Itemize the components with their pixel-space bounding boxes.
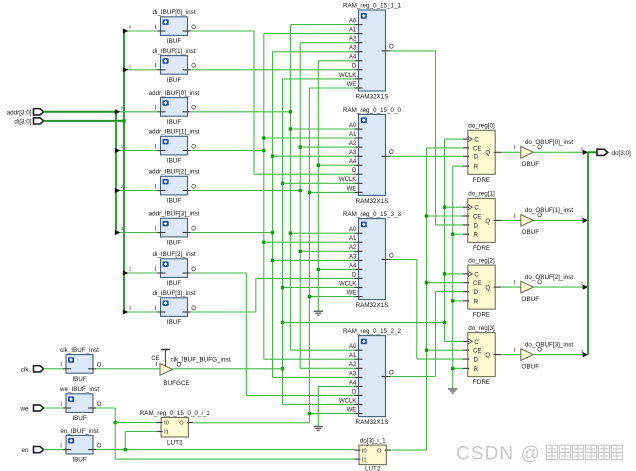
svg-text:A1: A1	[349, 28, 357, 34]
junction WE	[308, 191, 311, 194]
junction WCLK clk feed	[281, 367, 284, 370]
OBUF do_OBUF[0]_inst	[514, 139, 573, 168]
svg-text:C: C	[474, 340, 479, 346]
svg-text:O: O	[377, 448, 382, 454]
svg-text:RAM32X1S: RAM32X1S	[356, 302, 389, 309]
wire A4 to RAM pin	[318, 164, 354, 166]
svg-text:D: D	[474, 290, 479, 296]
svg-text:D: D	[352, 272, 357, 278]
svg-text:IBUF: IBUF	[167, 119, 181, 126]
svg-text:O: O	[97, 443, 102, 449]
junction addr[3]	[271, 259, 274, 262]
svg-text:FDRE: FDRE	[473, 177, 490, 184]
svg-text:we: we	[19, 406, 29, 413]
IBUF addr_IBUF[3]_inst	[149, 211, 200, 247]
wire R to FDRE	[453, 233, 463, 235]
bus tap di[1]	[123, 67, 129, 72]
svg-text:WE: WE	[347, 82, 357, 88]
svg-text:FDRE: FDRE	[473, 379, 490, 386]
svg-text:A0: A0	[349, 227, 357, 233]
svg-text:IBUF: IBUF	[167, 38, 181, 45]
bus tap di[3]	[123, 309, 129, 314]
wire en to LUT1 I1	[125, 431, 156, 433]
wire addr[0] to RAM pin	[290, 232, 354, 234]
svg-text:OBUF: OBUF	[522, 296, 540, 303]
wire do_reg[2] Q to OBUF	[501, 286, 521, 288]
IBUF we_IBUF_inst	[59, 386, 102, 422]
svg-text:A2: A2	[349, 141, 357, 147]
bus entry do[1]	[583, 218, 589, 223]
svg-text:I0: I0	[164, 421, 169, 427]
svg-text:do_reg[3]: do_reg[3]	[468, 325, 495, 332]
IBUF addr_IBUF[1]_inst	[149, 129, 200, 165]
IBUF di_IBUF[0]_inst	[152, 9, 196, 45]
svg-text:addr_IBUF[3]_inst: addr_IBUF[3]_inst	[149, 211, 200, 218]
wire LUT2 RAM_i_1 output	[193, 422, 310, 424]
svg-text:CE: CE	[473, 349, 481, 355]
svg-text:WCLK: WCLK	[339, 73, 356, 79]
svg-text:O: O	[389, 370, 394, 376]
net A4 const0 vertical upper	[317, 61, 319, 311]
junction A4	[317, 268, 320, 271]
ground G2	[314, 427, 323, 431]
wire R to FDRE	[453, 367, 463, 369]
junction WCLK branch	[281, 321, 284, 324]
wire CE to FDRE	[427, 349, 464, 351]
wire OBUF[0] out	[533, 151, 588, 153]
junction addr[2] feed	[299, 189, 302, 192]
svg-text:WE: WE	[347, 291, 357, 297]
wire to do_reg[2] D	[436, 291, 464, 293]
svg-text:O: O	[191, 25, 196, 31]
IBUF di_IBUF[2]_inst	[152, 251, 196, 287]
junction addr[0]	[289, 127, 292, 130]
wire tap to di_IBUF[3]_inst	[124, 311, 157, 313]
svg-text:O: O	[191, 226, 196, 232]
svg-text:di[3:0]: di[3:0]	[14, 118, 31, 125]
svg-text:en_IBUF_inst: en_IBUF_inst	[60, 428, 98, 435]
svg-text:do_OBUF[1]_inst: do_OBUF[1]_inst	[525, 207, 574, 214]
OBUF do_OBUF[1]_inst	[514, 207, 573, 236]
svg-text:do[3:0]: do[3:0]	[612, 150, 632, 157]
svg-text:addr_IBUF[2]_inst: addr_IBUF[2]_inst	[149, 169, 200, 176]
svg-text:O: O	[177, 363, 182, 369]
IBUF di_IBUF[3]_inst	[152, 290, 196, 326]
wire di_IBUF[0] out	[191, 30, 254, 32]
wire we vertical	[114, 408, 116, 459]
bus wire di[3:0]	[44, 120, 125, 122]
junction WE	[308, 295, 311, 298]
svg-text:CE: CE	[473, 214, 481, 220]
wire BUFGCE out to WCLK net	[173, 368, 283, 370]
wire OBUF[1] out	[533, 219, 588, 221]
wire to do_reg[3] D	[417, 358, 463, 360]
svg-text:do_reg[2]: do_reg[2]	[468, 257, 495, 264]
wire addr[3] to RAM pin	[273, 259, 355, 261]
bus entry do[2]	[583, 285, 589, 290]
wire di[2] vertical to RAM_2_2 D	[245, 273, 247, 395]
wire di_IBUF[3] out	[191, 311, 256, 313]
svg-text:do[3]_i_1: do[3]_i_1	[360, 437, 386, 444]
wire WE to RAM pin	[309, 413, 354, 415]
wire clk port to IBUF	[44, 368, 63, 370]
svg-text:A3: A3	[349, 150, 357, 156]
wire en_IBUF out to do[3]_i_1 I0	[96, 449, 354, 451]
wire addr[0] to RAM pin	[290, 128, 354, 130]
svg-text:RAM32X1S: RAM32X1S	[356, 419, 389, 426]
svg-text:R: R	[474, 299, 479, 305]
junction CE	[425, 349, 428, 352]
svg-text:D: D	[474, 358, 479, 364]
wire we_IBUF out	[96, 407, 115, 409]
svg-text:di_IBUF[0]_inst: di_IBUF[0]_inst	[152, 9, 195, 16]
svg-text:R: R	[474, 367, 479, 373]
svg-text:D: D	[474, 223, 479, 229]
svg-text:A4: A4	[349, 263, 357, 269]
wire addr[3] to RAM pin	[273, 51, 355, 53]
svg-text:FDRE: FDRE	[473, 312, 490, 319]
svg-text:O: O	[537, 280, 542, 286]
flip-flop FDRE do_reg[0]	[463, 123, 501, 184]
bus tap addr[2]	[115, 188, 121, 193]
wire addr[1] to RAM pin	[264, 358, 355, 360]
svg-text:do_OBUF[2]_inst: do_OBUF[2]_inst	[525, 274, 574, 281]
LUT2 RAM_reg_0_15_0_0_i_1	[140, 410, 211, 447]
wire OBUF[2] out	[533, 286, 588, 288]
bus wire to do[3:0] port	[588, 151, 597, 153]
svg-text:A3: A3	[349, 254, 357, 260]
wire to RAM_2_2 D pin	[246, 394, 354, 396]
IBUF addr_IBUF[2]_inst	[149, 169, 200, 205]
wire CE to FDRE	[427, 282, 464, 284]
wire we to do[3]_i_1 I1	[115, 458, 354, 460]
svg-text:clk_IBUF_inst: clk_IBUF_inst	[60, 347, 99, 354]
svg-text:IBUF: IBUF	[167, 280, 181, 287]
junction addr[1] feed	[262, 149, 265, 152]
svg-text:clk: clk	[21, 366, 30, 373]
svg-text:RAM_reg_0_15_0_0_i_1: RAM_reg_0_15_0_0_i_1	[140, 410, 211, 417]
svg-text:WCLK: WCLK	[339, 177, 356, 183]
svg-text:IBUF: IBUF	[167, 319, 181, 326]
wire we to LUT1 I0	[115, 422, 156, 424]
svg-text:O: O	[537, 347, 542, 353]
OBUF do_OBUF[3]_inst	[514, 341, 573, 370]
svg-text:addr[3:0]: addr[3:0]	[7, 109, 32, 116]
bus tap addr[3]	[115, 230, 121, 235]
buffer BUFGCE clk_IBUF_BUFG_inst	[151, 350, 230, 388]
svg-text:do_OBUF[3]_inst: do_OBUF[3]_inst	[525, 341, 574, 348]
svg-text:di_IBUF[1]_inst: di_IBUF[1]_inst	[152, 48, 195, 55]
wire addr[3] to RAM pin	[273, 155, 355, 157]
input port clk	[34, 366, 44, 372]
svg-text:addr_IBUF[1]_inst: addr_IBUF[1]_inst	[149, 129, 200, 136]
svg-text:A0: A0	[349, 19, 357, 25]
svg-text:CE: CE	[473, 146, 481, 152]
net CE vertical	[426, 148, 428, 450]
di bus vertical	[123, 31, 125, 312]
svg-text:C: C	[474, 272, 479, 278]
svg-text:RAM_reg_0_15_0_0: RAM_reg_0_15_0_0	[343, 107, 402, 114]
svg-text:OBUF: OBUF	[522, 363, 540, 370]
svg-text:O: O	[97, 402, 102, 408]
svg-text:do_OBUF[0]_inst: do_OBUF[0]_inst	[525, 139, 574, 146]
wire addr[1] to RAM pin	[264, 33, 355, 35]
wire do_reg[3] Q to OBUF	[501, 354, 521, 356]
junction di bus	[122, 119, 125, 122]
wire C to FDRE	[445, 340, 464, 342]
wire OBUF[3] out	[533, 354, 588, 356]
svg-text:en: en	[21, 447, 29, 454]
svg-text:WE: WE	[347, 186, 357, 192]
svg-text:O: O	[537, 145, 542, 151]
junction addr[0] feed	[289, 110, 292, 113]
addr bus vertical	[115, 112, 117, 233]
wire tap to addr_IBUF[2]_inst	[116, 190, 157, 192]
svg-text:IBUF: IBUF	[72, 415, 86, 422]
bus wire addr[3:0]	[44, 111, 117, 113]
svg-text:IBUF: IBUF	[72, 376, 86, 383]
svg-text:OBUF: OBUF	[522, 229, 540, 236]
svg-text:O: O	[389, 150, 394, 156]
svg-text:A2: A2	[349, 362, 357, 368]
IBUF clk_IBUF_inst	[60, 347, 102, 383]
input port en	[34, 447, 44, 453]
net WE vertical	[308, 88, 310, 423]
input port di[3:0]	[34, 118, 44, 124]
svg-text:OBUF: OBUF	[522, 161, 540, 168]
wire di[0] vertical to RAM_0_0 D	[253, 31, 255, 174]
OBUF do_OBUF[2]_inst	[514, 274, 573, 303]
svg-text:O: O	[191, 64, 196, 70]
junction R	[451, 233, 454, 236]
ground G3	[448, 389, 457, 393]
wire RAM_1_1 O	[390, 50, 436, 52]
wire addr[2] to RAM pin	[300, 367, 354, 369]
junction R	[451, 367, 454, 370]
svg-text:O: O	[191, 306, 196, 312]
svg-text:A4: A4	[349, 55, 357, 61]
watermark chinese glyph blocks	[547, 445, 623, 459]
net R const0 vertical	[452, 166, 454, 389]
junction addr[1]	[262, 136, 265, 139]
junction addr[2]	[299, 250, 302, 253]
flip-flop FDRE do_reg[3]	[463, 325, 501, 386]
wire A4 to RAM pin	[318, 268, 354, 270]
wire addr_IBUF[2] out	[191, 190, 300, 192]
svg-text:C: C	[474, 206, 479, 212]
wire C to FDRE	[445, 273, 464, 275]
svg-text:A3: A3	[349, 46, 357, 52]
wire addr_IBUF[3] out	[191, 232, 273, 234]
svg-text:WE: WE	[347, 408, 357, 414]
junction C feed	[443, 321, 446, 324]
wire RAM_2_2 O vertical	[435, 292, 437, 377]
net addr[1] vertical	[263, 34, 265, 360]
svg-text:A2: A2	[349, 37, 357, 43]
bus tap addr[0]	[115, 109, 121, 114]
svg-text:O: O	[191, 144, 196, 150]
wire addr[3] to RAM pin	[273, 376, 355, 378]
net clock C vertical	[444, 139, 446, 341]
svg-text:D: D	[352, 64, 357, 70]
svg-text:I0: I0	[362, 448, 367, 454]
svg-text:O: O	[537, 213, 542, 219]
RAM32X1S RAM_reg_0_15_3_3	[339, 211, 402, 309]
wire tap to addr_IBUF[3]_inst	[116, 232, 157, 234]
svg-text:FDRE: FDRE	[473, 245, 490, 252]
svg-text:addr_IBUF[0]_inst: addr_IBUF[0]_inst	[149, 90, 200, 97]
svg-text:A0: A0	[349, 123, 357, 129]
net WCLK vertical	[282, 79, 284, 405]
wire R to FDRE	[453, 300, 463, 302]
RAM32X1S RAM_reg_0_15_1_1	[339, 3, 402, 101]
wire addr_IBUF[0] out	[191, 111, 291, 113]
wire WCLK to RAM pin	[283, 404, 355, 406]
net addr[3] vertical	[272, 52, 274, 378]
wire R to FDRE	[453, 165, 463, 167]
input port addr[3:0]	[34, 109, 44, 115]
svg-text:CSDN @: CSDN @	[456, 444, 541, 465]
wire addr[0] to RAM pin	[290, 24, 354, 26]
svg-text:R: R	[474, 165, 479, 171]
svg-text:IBUF: IBUF	[167, 240, 181, 247]
junction addr[0]	[289, 232, 292, 235]
wire en vertical	[124, 432, 126, 450]
svg-text:O: O	[389, 253, 394, 259]
svg-text:LUT2: LUT2	[167, 440, 183, 447]
wire RAM_3_3 O	[390, 259, 417, 261]
bus entry do[0]	[583, 150, 589, 155]
svg-text:RAM_reg_0_15_3_3: RAM_reg_0_15_3_3	[343, 211, 402, 218]
svg-text:WCLK: WCLK	[339, 281, 356, 287]
wire clk_IBUF out to BUFGCE	[96, 368, 160, 370]
wire en port to IBUF	[44, 449, 63, 451]
svg-text:IBUF: IBUF	[72, 457, 86, 464]
wire tap to addr_IBUF[0]_inst	[116, 111, 157, 113]
wire C to FDRE	[445, 138, 464, 140]
wire do_reg[0] Q to OBUF	[501, 151, 521, 153]
wire A4 to RAM pin	[318, 60, 354, 62]
junction en	[124, 448, 127, 451]
svg-text:D: D	[352, 168, 357, 174]
svg-text:RAM_reg_0_15_1_1: RAM_reg_0_15_1_1	[343, 3, 402, 10]
svg-text:O: O	[191, 267, 196, 273]
junction WE	[308, 412, 311, 415]
wire addr[1] to RAM pin	[264, 137, 355, 139]
svg-text:A4: A4	[349, 159, 357, 165]
bus entry do[3]	[583, 352, 589, 357]
wire WE to RAM pin	[309, 296, 354, 298]
wire di[3] vertical to RAM_3_3 D	[255, 278, 257, 312]
svg-text:RAM32X1S: RAM32X1S	[356, 93, 389, 100]
svg-text:Q: Q	[485, 219, 490, 225]
net addr[0] vertical	[289, 25, 291, 351]
svg-text:WCLK: WCLK	[339, 398, 356, 404]
IBUF en_IBUF_inst	[60, 428, 102, 464]
wire do_reg[1] Q to OBUF	[501, 219, 521, 221]
wire tap to di_IBUF[1]_inst	[124, 69, 157, 71]
svg-text:O: O	[97, 363, 102, 369]
junction CE	[425, 214, 428, 217]
svg-text:IBUF: IBUF	[167, 77, 181, 84]
svg-text:Q: Q	[485, 151, 490, 157]
svg-text:Q: Q	[485, 286, 490, 292]
svg-text:A2: A2	[349, 245, 357, 251]
junction A4	[317, 164, 320, 167]
output port do[3:0]	[597, 149, 608, 155]
svg-text:D: D	[474, 155, 479, 161]
svg-text:A1: A1	[349, 132, 357, 138]
wire di_IBUF[2] out	[191, 272, 247, 274]
svg-text:di_IBUF[2]_inst: di_IBUF[2]_inst	[152, 251, 195, 258]
wire clock branch to FDRE C net	[283, 321, 445, 323]
IBUF di_IBUF[1]_inst	[152, 48, 196, 84]
svg-text:I1: I1	[164, 430, 169, 436]
svg-text:Q: Q	[485, 353, 490, 359]
wire we port to IBUF	[44, 407, 63, 409]
svg-text:D: D	[352, 389, 357, 395]
wire WCLK to RAM pin	[283, 78, 355, 80]
wire tap to di_IBUF[2]_inst	[124, 272, 157, 274]
wire addr[1] to RAM pin	[264, 241, 355, 243]
junction addr[2]	[299, 145, 302, 148]
bus tap di[0]	[123, 28, 129, 33]
wire addr[2] to RAM pin	[300, 42, 354, 44]
wire A4 RAM_2_2	[318, 385, 354, 387]
wire WCLK to RAM pin	[283, 182, 355, 184]
junction C	[443, 272, 446, 275]
junction addr[1]	[262, 241, 265, 244]
input port we	[34, 405, 44, 411]
wire CE to FDRE	[427, 215, 464, 217]
wire to do_reg[1] D	[436, 224, 464, 226]
wire WCLK to RAM pin	[283, 287, 355, 289]
svg-text:O: O	[389, 45, 394, 51]
svg-text:RAM32X1S: RAM32X1S	[356, 198, 389, 205]
svg-text:C: C	[474, 138, 479, 144]
svg-text:A0: A0	[349, 344, 357, 350]
svg-text:do_reg[0]: do_reg[0]	[468, 123, 495, 130]
net addr[2] vertical	[299, 43, 301, 369]
svg-text:LUT2: LUT2	[365, 465, 381, 471]
bus tap di[2]	[123, 270, 129, 275]
svg-text:CE: CE	[473, 281, 481, 287]
svg-text:BUFGCE: BUFGCE	[163, 380, 189, 387]
svg-text:A1: A1	[349, 353, 357, 359]
wire WE to RAM pin	[309, 87, 354, 89]
wire tap to di_IBUF[0]_inst	[124, 30, 157, 32]
wire C to FDRE	[445, 206, 464, 208]
flip-flop FDRE do_reg[2]	[463, 257, 501, 318]
net A4 const0 vertical lower	[317, 386, 319, 426]
wire CE to FDRE	[427, 147, 464, 149]
wire addr[0] to RAM pin	[290, 349, 354, 351]
wire di_IBUF[1] out to RAM_1_1 D	[191, 69, 355, 71]
wire addr_IBUF[1] out	[191, 150, 264, 152]
junction we to LUT1	[114, 421, 117, 424]
svg-text:A1: A1	[349, 236, 357, 242]
wire RAM_0_0 O to do_reg[0] D	[390, 155, 463, 157]
junction C	[443, 206, 446, 209]
RAM32X1S RAM_reg_0_15_2_2	[339, 328, 402, 426]
ground G1	[314, 311, 323, 315]
wire addr[2] to RAM pin	[300, 250, 354, 252]
junction CE	[425, 281, 428, 284]
wire tap to addr_IBUF[1]_inst	[116, 150, 157, 152]
svg-text:RAM_reg_0_15_2_2: RAM_reg_0_15_2_2	[343, 328, 402, 335]
svg-text:R: R	[474, 233, 479, 239]
svg-text:A4: A4	[349, 380, 357, 386]
